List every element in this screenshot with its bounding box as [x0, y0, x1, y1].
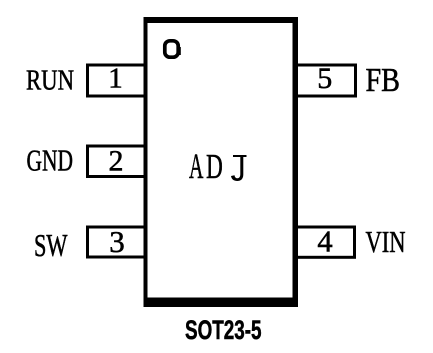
svg-text:A: A — [189, 146, 204, 186]
net label RUN (pin 1) — [26, 65, 74, 97]
net label FB (pin 5) — [366, 62, 401, 99]
svg-text:1: 1 — [108, 63, 123, 95]
pin number 2 — [109, 145, 124, 178]
part name label ADJ — [189, 146, 247, 186]
net label SW (pin 3) — [34, 227, 68, 263]
svg-text:SW: SW — [34, 227, 68, 263]
net label VIN (pin 4) — [366, 224, 406, 259]
pin number 5 — [317, 62, 332, 95]
svg-text:RUN: RUN — [26, 65, 74, 97]
pin 2 pad box — [88, 146, 146, 177]
svg-text:GND: GND — [27, 144, 74, 178]
svg-text:4: 4 — [317, 225, 332, 259]
svg-text:SOT23-5: SOT23-5 — [185, 315, 262, 345]
svg-text:D: D — [206, 147, 223, 186]
svg-text:2: 2 — [109, 145, 124, 178]
svg-text:VIN: VIN — [366, 224, 406, 259]
pin 1 pad box — [88, 65, 146, 96]
pin 1 indicator dot O — [165, 41, 181, 57]
svg-text:5: 5 — [317, 62, 332, 95]
svg-text:3: 3 — [109, 224, 125, 259]
net label GND (pin 2) — [27, 144, 74, 178]
pin 4 pad box — [295, 227, 355, 257]
pin 3 pad box — [88, 227, 146, 257]
IC body U1 (SOT23-5 package outline) — [144, 17, 299, 307]
package caption SOT23-5 — [185, 315, 262, 345]
pin 5 pad box — [295, 65, 356, 96]
svg-text:FB: FB — [366, 62, 401, 99]
pin number 3 — [109, 224, 125, 259]
pin number 1 — [108, 63, 123, 95]
pin number 4 — [317, 225, 332, 259]
